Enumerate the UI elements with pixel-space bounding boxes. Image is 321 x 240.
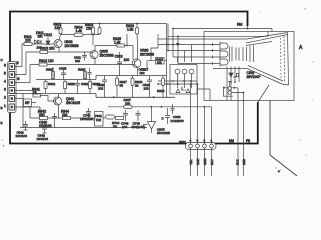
resistor R906 (136, 24, 139, 46)
main board border frame (10, 12, 258, 144)
svg-text:R922: R922 (68, 82, 76, 86)
resistor R902 (92, 24, 94, 35)
capacitor C740 (86, 108, 91, 118)
diode D911 dual (32, 40, 54, 44)
capacitor C918 (88, 68, 92, 80)
left column wire (22, 94, 24, 128)
diode D912 (46, 37, 50, 45)
transistor Q903 (54, 35, 62, 53)
svg-text:1.4k: 1.4k (76, 29, 83, 33)
svg-text:FB: FB (246, 139, 250, 143)
svg-text:GF: GF (25, 101, 29, 105)
CRT funnel bottom flare (247, 66, 283, 85)
svg-text:1: 1 (4, 104, 6, 108)
resistor R911 input (24, 43, 32, 46)
wire R928 node (147, 34, 167, 68)
connector 2-pin (deflection yoke) (224, 82, 244, 177)
wire B+ feed from border to CRT board (248, 26, 273, 32)
resistor R901 (60, 24, 62, 35)
capacitor C916 (147, 76, 152, 98)
ground cap bottom of connector (38, 107, 43, 116)
svg-text:WHT: WHT (196, 158, 200, 165)
svg-text:5: 5 (4, 72, 6, 76)
svg-text:2SC1815: 2SC1815 (157, 131, 170, 135)
wire neck board verticals (227, 67, 231, 101)
transistor Q943 (144, 107, 156, 133)
capacitor C942 (42, 124, 47, 133)
wire R905 node (95, 34, 133, 60)
wires from connector pins (15, 44, 41, 107)
connector P901 (bottom, 4 pins) (186, 143, 217, 150)
svg-text:C921: C921 (81, 82, 89, 86)
svg-text:10k: 10k (157, 61, 162, 65)
diode D951 under gun (229, 67, 239, 89)
rail feed wires to CRT socket (158, 24, 268, 64)
CRT neck top line (212, 38, 247, 40)
svg-text:1k2: 1k2 (62, 113, 68, 117)
wires from P901 up to circuit (158, 81, 212, 176)
CRT funnel top flare (246, 33, 288, 46)
transistor Q941 (41, 94, 62, 119)
junction arrow (176, 43, 180, 46)
svg-text:150: 150 (39, 113, 45, 117)
svg-text:B: B (17, 61, 19, 65)
capacitor C921 (75, 80, 80, 90)
svg-text:104: 104 (122, 125, 127, 129)
svg-text:R918: R918 (157, 89, 165, 93)
svg-text:1.8k: 1.8k (127, 28, 134, 32)
svg-text:2SC5888: 2SC5888 (65, 44, 79, 48)
svg-text:2SC2688: 2SC2688 (140, 53, 154, 57)
svg-text:R921: R921 (48, 82, 56, 86)
svg-text:12k: 12k (86, 27, 92, 31)
transistor Q907 (129, 46, 141, 76)
resistor R941 (33, 94, 41, 97)
svg-text:6: 6 (4, 64, 6, 68)
grid electrodes (230, 46, 254, 63)
resistor R942 (40, 117, 48, 120)
svg-text:12k: 12k (55, 26, 61, 30)
svg-text:BLU: BLU (210, 159, 214, 165)
margin connector stub labels (1, 58, 5, 147)
svg-text:16V/104: 16V/104 (37, 137, 49, 141)
capacitor C746 (123, 110, 128, 121)
wire dag ground diagonal (258, 85, 269, 102)
connector box with 3 sockets (focus pack) (170, 45, 197, 95)
svg-text:0Ω: 0Ω (113, 125, 118, 129)
posistor box P941 (95, 112, 104, 127)
capacitor C914 (102, 76, 107, 98)
svg-text:DC1800V: DC1800V (171, 119, 185, 123)
wire focus feed left (166, 24, 168, 98)
wire collector node (61, 35, 94, 46)
bottom ground rail (20, 127, 147, 129)
svg-text:P901: P901 (179, 140, 186, 144)
svg-text:102: 102 (75, 59, 80, 63)
svg-text:2: 2 (4, 96, 6, 100)
CRT assembly outline box (204, 32, 294, 101)
resistor R916 (84, 72, 87, 79)
svg-text:RED: RED (242, 159, 246, 165)
svg-text:C917: C917 (141, 68, 149, 72)
svg-text:R912 120: R912 120 (39, 59, 54, 63)
CRT screen inner dashes (283, 36, 286, 81)
resistor R904 (74, 33, 83, 36)
svg-text:NM: NM (237, 23, 242, 27)
svg-text:16V/104: 16V/104 (16, 134, 28, 138)
resistor R928 boxed (156, 58, 165, 65)
svg-text:2SC1815: 2SC1815 (66, 101, 80, 105)
wire lower input rail (30, 64, 129, 66)
CRT picture tube CRM 29V100P (212, 33, 289, 86)
resistor R922 (64, 82, 67, 89)
svg-text:684(6.3V): 684(6.3V) (132, 125, 146, 129)
resistor R915 (52, 72, 55, 79)
harness wire color labels (189, 158, 214, 165)
resistor R913 (40, 51, 48, 54)
svg-text:2SC2688: 2SC2688 (100, 54, 114, 58)
capacitor C945 (171, 104, 175, 114)
svg-text:R913 150: R913 150 (40, 47, 55, 51)
svg-text:1.4k: 1.4k (114, 41, 121, 45)
resistor R918 (162, 78, 165, 86)
svg-text:100: 100 (124, 58, 130, 62)
svg-text:C: C (162, 117, 164, 121)
CRT screen face (282, 33, 289, 86)
svg-text:R915: R915 (46, 68, 54, 72)
svg-text:100: 100 (25, 39, 31, 43)
resistor R923 (89, 82, 92, 89)
resistor R919 (131, 78, 134, 86)
resistor R912 (39, 63, 47, 66)
transistor Q905 (90, 46, 98, 65)
wire anode lead down right (270, 101, 297, 177)
vertical stubs row2 (46, 67, 164, 97)
wire from focus box right (197, 89, 210, 101)
capacitor C944 (165, 108, 170, 124)
svg-text:4: 4 (4, 80, 6, 84)
svg-text:GR: GR (38, 35, 44, 39)
wire mid node rail (108, 106, 212, 108)
pin number labels (4, 61, 20, 108)
wire lower signal path (30, 107, 105, 128)
scan speckles (1, 8, 313, 170)
svg-text:1k: 1k (33, 91, 37, 95)
resistor R744 (116, 117, 124, 120)
svg-text:10k: 10k (125, 101, 130, 105)
CRT neck bottom line (213, 68, 247, 70)
long mid ground rail (10, 93, 96, 95)
capacitor C911 (82, 52, 87, 61)
mid row vertical parts rail (36, 76, 167, 80)
svg-text:C912: C912 (44, 33, 52, 37)
svg-text:B: B (1, 106, 3, 110)
svg-text:C913: C913 (115, 55, 123, 59)
resistor R903 (93, 24, 100, 35)
resistor R921 (44, 82, 47, 89)
connector P902 (left edge, 6 pins) (8, 62, 17, 113)
svg-text:3: 3 (4, 88, 6, 92)
svg-text:GRN: GRN (203, 159, 207, 165)
svg-text:1k: 1k (135, 84, 139, 88)
wire top B+ rail (61, 23, 167, 25)
svg-text:102: 102 (98, 87, 103, 91)
capacitor C941 (23, 121, 28, 130)
svg-text:NM: NM (229, 139, 234, 143)
svg-text:YEL: YEL (189, 159, 193, 165)
warning symbols in box (176, 87, 190, 93)
svg-text:56: 56 (120, 84, 124, 88)
capacitor C913 (117, 52, 122, 76)
svg-text:29V100P: 29V100P (247, 75, 262, 79)
junction node dots on neck return (230, 81, 236, 89)
svg-text:R923: R923 (93, 82, 101, 86)
svg-text:16V/223K: 16V/223K (80, 117, 95, 121)
resistor R905 (117, 44, 125, 47)
resistor R944 (63, 117, 71, 120)
capacitor C748 (136, 110, 141, 121)
capacitor C940 (52, 113, 57, 122)
svg-text:BLK: BLK (236, 159, 240, 165)
svg-text:B: B (1, 121, 3, 125)
box GF (service jumper) (24, 99, 32, 107)
svg-text:TH2: TH2 (96, 118, 102, 122)
gun lead wires with pins (206, 43, 220, 65)
svg-text:R916: R916 (78, 68, 86, 72)
capacitor C915 (61, 70, 66, 80)
wire base rail Q905 (30, 51, 92, 53)
svg-text:C915: C915 (59, 67, 67, 71)
electron gun G1-G4 assembly (220, 42, 228, 67)
svg-text:102: 102 (144, 87, 149, 91)
resistor R917 (116, 78, 119, 86)
resistor R746 pill (106, 115, 115, 119)
